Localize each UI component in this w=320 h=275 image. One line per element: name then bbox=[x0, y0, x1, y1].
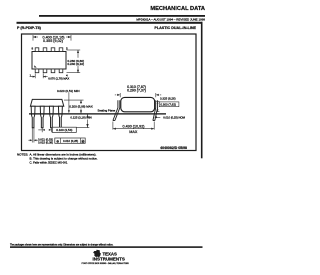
footer address bbox=[82, 262, 129, 265]
header rule bbox=[39, 15, 205, 17]
right edge bar bbox=[201, 22, 203, 159]
pin number 5 bbox=[66, 46, 68, 50]
svg-text:0.020 (0,51) MIN: 0.020 (0,51) MIN bbox=[57, 89, 80, 93]
lead tip extension line bbox=[62, 127, 90, 129]
svg-text:The packages shown here are re: The packages shown here are representati… bbox=[10, 243, 114, 246]
svg-text:0.125 (3,18) MIN: 0.125 (3,18) MIN bbox=[70, 115, 91, 119]
top view lower pins bbox=[35, 69, 63, 73]
svg-text:MECHANICAL DATA: MECHANICAL DATA bbox=[150, 6, 205, 12]
dimension 0.400/0.355 top bbox=[33, 35, 71, 41]
end view right lead bbox=[153, 100, 158, 120]
title bar rule bbox=[17, 22, 203, 24]
drawing frame bbox=[22, 34, 197, 151]
svg-text:MAX: MAX bbox=[129, 130, 138, 134]
svg-text:NOTES:: NOTES: bbox=[17, 152, 28, 156]
svg-text:0.200 (5,08) MAX: 0.200 (5,08) MAX bbox=[69, 105, 93, 109]
package title left bbox=[17, 26, 42, 30]
svg-text:POST OFFICE BOX 655303 • DALLA: POST OFFICE BOX 655303 • DALLAS, TEXAS 7… bbox=[82, 262, 129, 265]
dimension 0.100 pitch bbox=[38, 128, 52, 132]
pin number 4 bbox=[66, 73, 68, 77]
dimension 0.021/0.015 lead width bbox=[28, 128, 37, 143]
svg-text:C. Falls within JEDEC MS-001: C. Falls within JEDEC MS-001 bbox=[30, 160, 68, 164]
dimension 0.310/0.290 top of end view bbox=[127, 85, 146, 93]
TI logo glyph bbox=[93, 250, 101, 257]
svg-text:4040082/D 05/98: 4040082/D 05/98 bbox=[160, 146, 187, 150]
callout 0.010 NOM bbox=[157, 116, 161, 118]
revision line bbox=[136, 18, 205, 22]
svg-text:0.290 (7,37): 0.290 (7,37) bbox=[127, 89, 146, 93]
end view left lead bbox=[113, 100, 120, 120]
svg-text:0.325 (8,26): 0.325 (8,26) bbox=[160, 97, 176, 101]
svg-text:PLASTIC DUAL-IN-LINE: PLASTIC DUAL-IN-LINE bbox=[154, 26, 196, 30]
label Seating Plane bbox=[98, 109, 116, 113]
top view body bbox=[32, 52, 66, 70]
svg-text:0.300 (7,62): 0.300 (7,62) bbox=[160, 103, 176, 107]
drawing number bbox=[160, 146, 187, 150]
pin number 1 bbox=[30, 73, 32, 77]
feature control frame 0.010 M bbox=[55, 138, 85, 143]
pin 1 index mark bbox=[34, 65, 36, 67]
dimension 0.070 MAX below top view bbox=[31, 73, 48, 78]
svg-text:0.010 (0,25) NOM: 0.010 (0,25) NOM bbox=[163, 116, 185, 120]
pin number 8 bbox=[32, 46, 34, 50]
svg-text:0.355 (9,02): 0.355 (9,02) bbox=[43, 39, 63, 43]
svg-text:0.070 (1,78) MAX: 0.070 (1,78) MAX bbox=[48, 76, 69, 80]
svg-text:0.010 (0,25): 0.010 (0,25) bbox=[63, 139, 78, 143]
header MECHANICAL DATA bbox=[150, 6, 205, 12]
footer rule bbox=[10, 246, 203, 248]
svg-text:MPDI001A – AUGUST 1994 – REVIS: MPDI001A – AUGUST 1994 – REVISED JUNE 19… bbox=[136, 18, 205, 22]
svg-text:P (R-PDIP-T8): P (R-PDIP-T8) bbox=[17, 26, 42, 30]
dimension 0.125 MIN bbox=[87, 114, 89, 127]
svg-text:0.240 (6,10): 0.240 (6,10) bbox=[67, 62, 84, 66]
front view leads bbox=[31, 106, 62, 128]
seating plane line bbox=[29, 113, 166, 114]
svg-text:0.015 (0,38): 0.015 (0,38) bbox=[38, 141, 53, 145]
TI logo INSTRUMENTS bbox=[92, 257, 125, 262]
svg-text:0.430 (10,92): 0.430 (10,92) bbox=[123, 124, 145, 128]
notes bbox=[17, 152, 98, 164]
end view body bbox=[121, 97, 155, 111]
dimension 0.325/0.300 right of end view bbox=[156, 101, 159, 111]
dimension 0.200 MAX bbox=[64, 100, 84, 113]
svg-text:Ⓜ: Ⓜ bbox=[81, 138, 84, 143]
callout 0.020 MIN bbox=[57, 89, 80, 93]
svg-text:INSTRUMENTS: INSTRUMENTS bbox=[92, 257, 125, 262]
TI logo TEXAS bbox=[103, 251, 117, 256]
svg-text:TEXAS: TEXAS bbox=[103, 251, 117, 256]
package title right bbox=[154, 26, 196, 30]
dimension 0.430 MAX bottom of end view bbox=[113, 122, 154, 130]
footer note bbox=[10, 243, 114, 246]
front view body bbox=[30, 99, 63, 106]
top view upper pins bbox=[35, 48, 63, 52]
svg-text:0.100 (2,54): 0.100 (2,54) bbox=[56, 128, 72, 132]
svg-text:Seating Plane: Seating Plane bbox=[98, 109, 116, 113]
svg-text:⊕: ⊕ bbox=[56, 139, 59, 143]
dimension 0.260/0.240 right bbox=[67, 50, 81, 73]
